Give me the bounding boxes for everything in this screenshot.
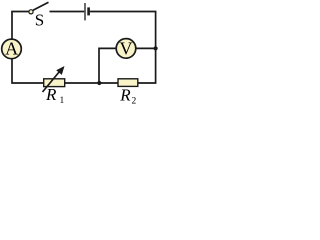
resistor R2 body [118, 79, 138, 87]
svg-text:V: V [120, 38, 133, 58]
rheostat R1 arrow [43, 72, 60, 93]
svg-text:A: A [5, 38, 18, 58]
wire switch to battery [50, 11, 85, 13]
svg-text:S: S [35, 11, 44, 30]
rheostat R1 body [44, 79, 65, 87]
wire voltmeter to right wire [136, 47, 156, 49]
node A junction dot left [97, 81, 101, 85]
wire ammeter bottom to bottom-left corner to R1 [12, 59, 44, 83]
wire top-left corner to switch [12, 12, 29, 40]
ammeter U=A [2, 39, 22, 59]
battery long plate [84, 3, 86, 20]
svg-text:1: 1 [60, 96, 65, 106]
switch S pivot circle [29, 10, 33, 14]
svg-text:R: R [119, 86, 131, 105]
wire node up to voltmeter [99, 48, 116, 83]
battery short plate [87, 7, 90, 15]
background [0, 0, 163, 106]
node B junction dot right [154, 46, 158, 50]
wire battery to top-right corner down to R2 [90, 12, 156, 84]
voltmeter U=V [116, 39, 136, 59]
svg-text:2: 2 [132, 97, 137, 107]
wire R1 to R2 through node [65, 82, 118, 84]
switch S blade [33, 2, 49, 10]
svg-text:R: R [45, 85, 57, 104]
